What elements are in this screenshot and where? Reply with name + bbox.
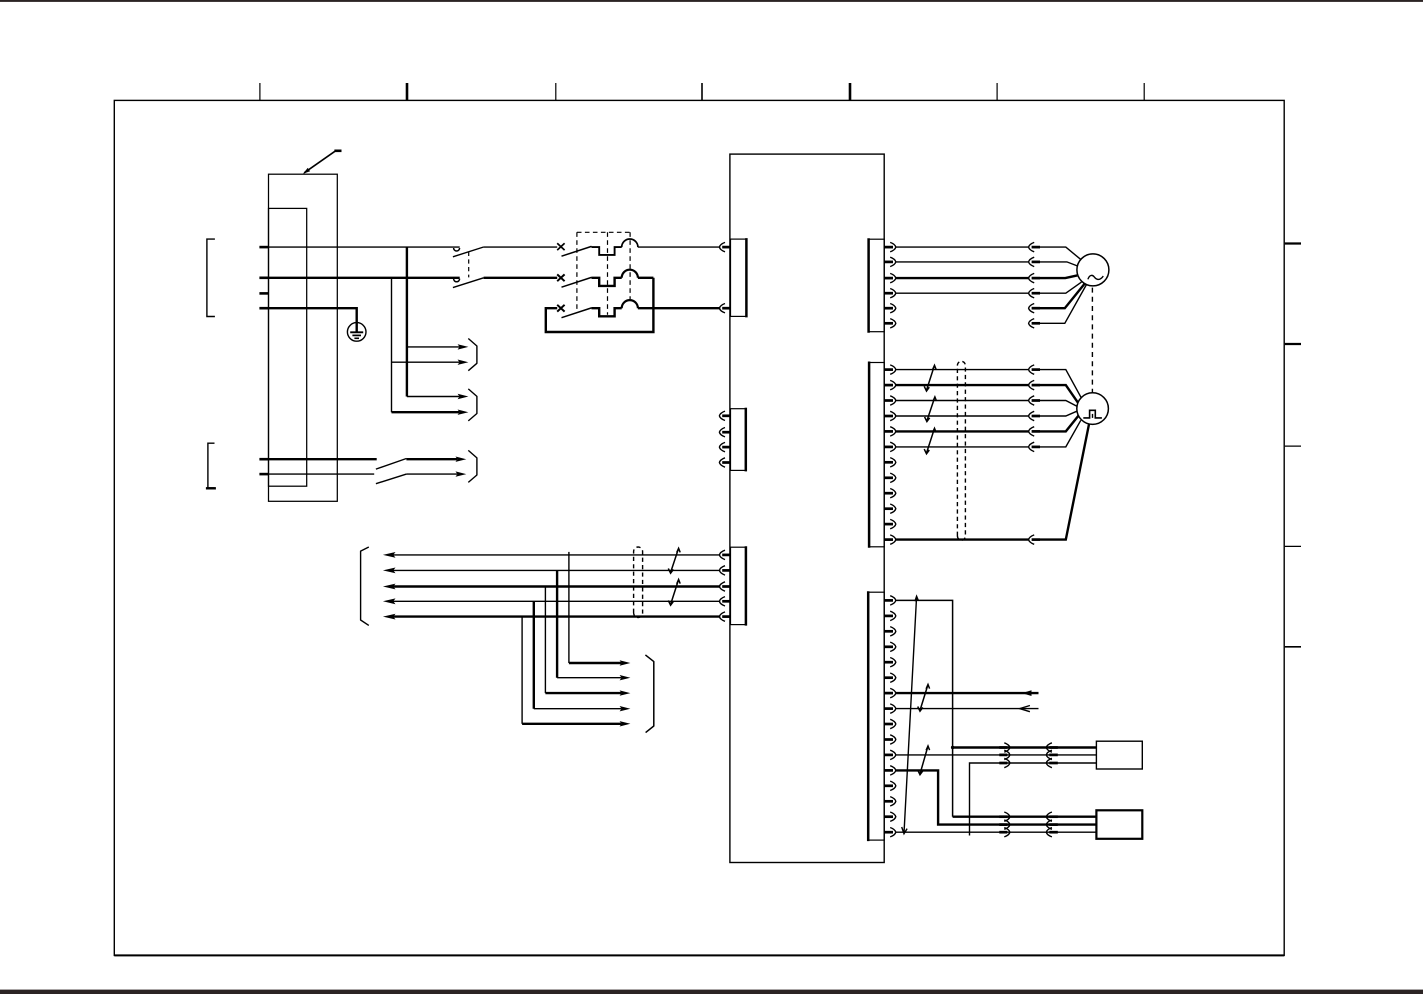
harness wire 5: [393, 615, 720, 617]
CN6 pin 15: [884, 812, 895, 821]
SW2 pole 2 blade: [376, 474, 407, 484]
sensor return wire (CN6 pin 8): [896, 708, 1039, 710]
drop arrow 1: [620, 660, 631, 665]
CN5 pin 11: [884, 519, 895, 528]
CB1 pole 2 blade: [562, 277, 592, 287]
CN4 pin 5: [884, 304, 895, 313]
SW2 pole 1 output wire: [406, 458, 457, 460]
CN6 pin 11: [884, 750, 895, 759]
M1 wire 6 arrow: [1029, 319, 1035, 328]
SW1 mechanical link (dashed): [468, 252, 470, 278]
drop arrow 5: [620, 721, 631, 726]
M2 common wire arrow: [1029, 535, 1035, 544]
SW2 pole 2 output wire: [406, 473, 457, 475]
heater H1 bottom wire: [970, 763, 1097, 836]
harness arrow 2: [383, 568, 396, 574]
M2 pair mark 2: [925, 397, 937, 422]
CN3 pin 2: [719, 566, 730, 575]
thermostat output wire (CN6 pin 7): [896, 692, 1039, 694]
M1 wire 4 arrow: [1029, 289, 1035, 298]
CN3 pin 5: [719, 612, 730, 621]
M1 wire 5 arrow: [1029, 304, 1035, 313]
fan-out arrow 3: [458, 394, 469, 399]
CB1 pole 1 blade: [562, 246, 592, 256]
drop arrow 3: [620, 690, 631, 695]
connector CN4 body (top-right): [869, 239, 885, 332]
heater H2 box: [1096, 810, 1142, 839]
fan-out wire 4: [392, 411, 460, 413]
fan-out wire 3: [407, 396, 460, 398]
CN2 pin 2: [719, 428, 730, 437]
connector CN1 body (top-left): [731, 239, 747, 316]
CN5 pin 5: [884, 427, 895, 436]
M2 wire 4 arrow: [1029, 411, 1035, 420]
CN6 pin 12: [884, 766, 895, 775]
drop vertical 3: [544, 587, 546, 694]
CN5 pin 12: [884, 535, 895, 544]
harness arrow 3: [383, 584, 396, 590]
heater H1 middle wire (CN6 pin 11): [896, 754, 1097, 756]
CN6 pair mark 1: [918, 685, 930, 712]
main control PCB box: [730, 154, 884, 862]
connector CN6 body (bottom-right): [868, 592, 884, 840]
M2 pulse symbol: [1083, 410, 1102, 418]
CN5 pin 1: [884, 365, 895, 374]
fan-out arrow 1: [458, 344, 469, 349]
harness arrow 1: [383, 552, 396, 558]
top ruler ticks: [260, 83, 1144, 101]
CN1 pin 2: [719, 304, 730, 313]
M1 wire 1: [896, 247, 1081, 260]
pulse motor M2: [1077, 393, 1109, 425]
harness wire 2: [393, 569, 720, 571]
harness wire 1 (to operation panel): [393, 554, 720, 556]
connector CN5 body (middle-right): [869, 363, 884, 547]
tap vertical from wire N: [391, 278, 393, 412]
M2 wire 6 arrow: [1029, 442, 1035, 451]
M1 wire 6: [1040, 285, 1086, 323]
CB1 pole 2 thermal notch: [592, 278, 622, 286]
SW2 connector bracket: [468, 450, 477, 482]
drop vertical 2: [556, 570, 558, 677]
CN6 pin 16: [884, 828, 895, 837]
bottom bar: [0, 990, 1423, 994]
CN4 pin 3: [884, 273, 895, 282]
CN6 bundle slash: [902, 596, 919, 834]
thermostat arrow: [1022, 690, 1032, 696]
M1 wire 2 arrow: [1029, 257, 1035, 266]
CB1 pole 1 bump: [622, 239, 638, 247]
CN4 pin 6: [884, 319, 895, 328]
CN1 pin 1: [719, 242, 730, 251]
M1 wire 3: [896, 275, 1077, 278]
SW2 arrow 2: [456, 471, 467, 476]
harness wire 4: [393, 600, 720, 602]
drawing border: [114, 100, 1284, 955]
harness wire 3: [393, 585, 720, 587]
CN6 pin 4: [884, 642, 895, 651]
CB1 pole 1 contact X: [557, 243, 564, 250]
fan-out arrow 2: [458, 360, 469, 365]
fan-out arrow 4: [458, 410, 469, 415]
main motor M1: [1077, 254, 1109, 286]
harness arrow 5: [383, 614, 396, 620]
CN5 pin 3: [884, 396, 895, 405]
CN4 pin 4: [884, 289, 895, 298]
main switch SW1 pole 1: [453, 247, 484, 257]
CB1 pole 3 bump: [622, 300, 638, 308]
CN5 pin 6: [884, 442, 895, 451]
M2 wire 1 arrow: [1029, 365, 1035, 374]
drop arrow wire 1: [569, 662, 622, 664]
CB1 series loop: [546, 278, 654, 332]
CN5 pin 9: [884, 489, 895, 498]
CN6 pin 9: [884, 719, 895, 728]
heater H2 bottom wire (CN6 pin 16): [896, 831, 1097, 833]
CN4 pin 2: [884, 257, 895, 266]
drop group bracket: [645, 655, 653, 733]
M1 wire 2: [896, 262, 1078, 266]
M2 wire 3 arrow: [1029, 396, 1035, 405]
input connector bracket (lower): [208, 443, 215, 488]
sensor arrow: [1020, 706, 1030, 712]
CN6 pin 7: [884, 688, 895, 697]
M1 AC symbol: [1088, 275, 1103, 279]
heater H2 middle wire (CN6 pin 12): [896, 770, 1097, 824]
M2 wire 1: [896, 370, 1081, 398]
M2 wire 4: [896, 411, 1077, 416]
interlock switch SW2 pole 1 wire: [269, 458, 377, 460]
CB1 pole 1 output wire: [638, 246, 720, 248]
connector CN3 body (bottom-left): [731, 547, 746, 624]
wire L (live) thin: [269, 246, 460, 248]
M2 wire 5 arrow: [1029, 427, 1035, 436]
CN5 pin 7: [884, 458, 895, 467]
M2 pair mark 3: [924, 428, 936, 454]
noise filter / transformer T1 outer box: [269, 174, 338, 501]
CN6 pin 2: [884, 611, 895, 620]
CN4 pin 1: [884, 242, 895, 251]
protective earth ground symbol: [347, 323, 366, 342]
junction dot: [951, 746, 954, 749]
fan-out connector bracket (lower): [468, 389, 477, 421]
M1 wire 5: [1040, 284, 1085, 309]
wire SW1 pole1 to breaker: [484, 246, 558, 248]
CN5 pin 4: [884, 411, 895, 420]
drop arrow 4: [620, 706, 631, 711]
harness left bracket: [361, 547, 369, 625]
M2 wire 2 arrow: [1029, 380, 1035, 389]
SW2 arrow 1: [456, 457, 467, 462]
CN6 pin 3: [884, 627, 895, 636]
CB1 pole 3 output wire: [638, 307, 720, 309]
harness shield (dashed capsule): [634, 547, 643, 618]
drop arrow wire 4: [534, 708, 622, 710]
CN6 pin 14: [884, 797, 895, 806]
CN2 pin 1: [719, 411, 730, 420]
CB1 pole 3 blade: [562, 308, 592, 318]
CN2 pin 4: [719, 458, 730, 467]
CN6 pin 10: [884, 735, 895, 744]
CB1 pole 2 contact X: [557, 274, 564, 281]
H1 wire connector arrows (left): [1046, 743, 1058, 768]
H1 wire connector arrows (right): [999, 743, 1010, 768]
M2 wire 6: [896, 420, 1081, 447]
CN6 pin1 supply wire: [896, 600, 953, 816]
CN6 pin 5: [884, 658, 895, 667]
CN6 pin 13: [884, 781, 895, 790]
drop arrow wire 2: [557, 677, 621, 679]
connector CN2 body (middle-left): [731, 409, 746, 471]
T1 pin stubs: [259, 247, 268, 474]
H2 wire connector arrows (right): [999, 812, 1010, 837]
CN5 pin 2: [884, 380, 895, 389]
M2 pair mark 1: [924, 365, 936, 391]
M2 wire 3: [896, 401, 1077, 407]
CN6 pin 8: [884, 704, 895, 713]
wire N (neutral) thick: [269, 277, 460, 279]
CN3 pin 1: [719, 550, 730, 559]
heater H1 box: [1096, 741, 1142, 769]
heater H2 top wire: [953, 816, 1097, 818]
ground wire: [269, 308, 357, 323]
fan-out connector bracket (upper): [468, 339, 477, 371]
CN6 pin 6: [884, 673, 895, 682]
adjustment arrow on T1: [303, 151, 342, 174]
CN3 pin 4: [719, 597, 730, 606]
drop arrow wire 5: [522, 723, 621, 725]
harness arrow 4: [383, 598, 396, 604]
drop arrow 2: [620, 675, 631, 680]
right ruler ticks: [1285, 244, 1301, 647]
SW2 pole 1 blade: [376, 459, 407, 470]
input connector bracket (upper): [207, 239, 215, 316]
harness pair mark 1: [668, 548, 680, 573]
CN5 pin 10: [884, 504, 895, 513]
tap vertical from wire L: [406, 247, 408, 396]
CB1 pole 2 bump: [622, 270, 638, 278]
CB1 pole 3 thermal notch: [592, 308, 622, 316]
wire SW1 pole2 to breaker: [484, 277, 558, 279]
CN3 pin 3: [719, 582, 730, 591]
drop vertical 5: [521, 617, 523, 724]
M1 wire 3 arrow: [1029, 273, 1035, 282]
M1 wire 1 arrow: [1029, 242, 1035, 251]
heater H1 top wire: [953, 746, 1097, 748]
top bar: [0, 0, 1423, 2]
main switch SW1 pole 2: [453, 278, 484, 288]
drop arrow wire 3: [545, 692, 621, 694]
CN6 pin 1: [884, 596, 895, 605]
thermal breaker CB1 dashed enclosure: [577, 232, 630, 314]
M2 common wire (pin 12): [896, 424, 1089, 540]
drop vertical 1: [568, 552, 570, 663]
interlock switch SW2 pole 2 wire: [269, 473, 374, 475]
CB1 pole 3 contact X: [557, 305, 564, 312]
drop vertical 4: [533, 601, 535, 708]
CN5 pin 8: [884, 473, 895, 482]
M2 wire 5: [896, 416, 1079, 432]
M1 wire 4: [896, 282, 1082, 293]
transformer T1 inner winding box: [269, 208, 307, 486]
CB1 pole 2 output wire: [638, 277, 654, 279]
fan-out wire 2: [392, 361, 460, 363]
M1-M2 mechanical link (dashed): [1091, 288, 1093, 393]
M2 shield (dashed capsule): [957, 361, 965, 540]
CN6 pair mark 2: [918, 746, 930, 775]
fan-out wire 1: [407, 346, 460, 348]
CN2 pin 3: [719, 442, 730, 451]
M2 wire 2: [896, 385, 1078, 403]
H2 wire connector arrows (left): [1046, 812, 1058, 837]
CB1 pole 1 thermal notch: [592, 247, 622, 255]
harness pair mark 2: [668, 580, 680, 606]
